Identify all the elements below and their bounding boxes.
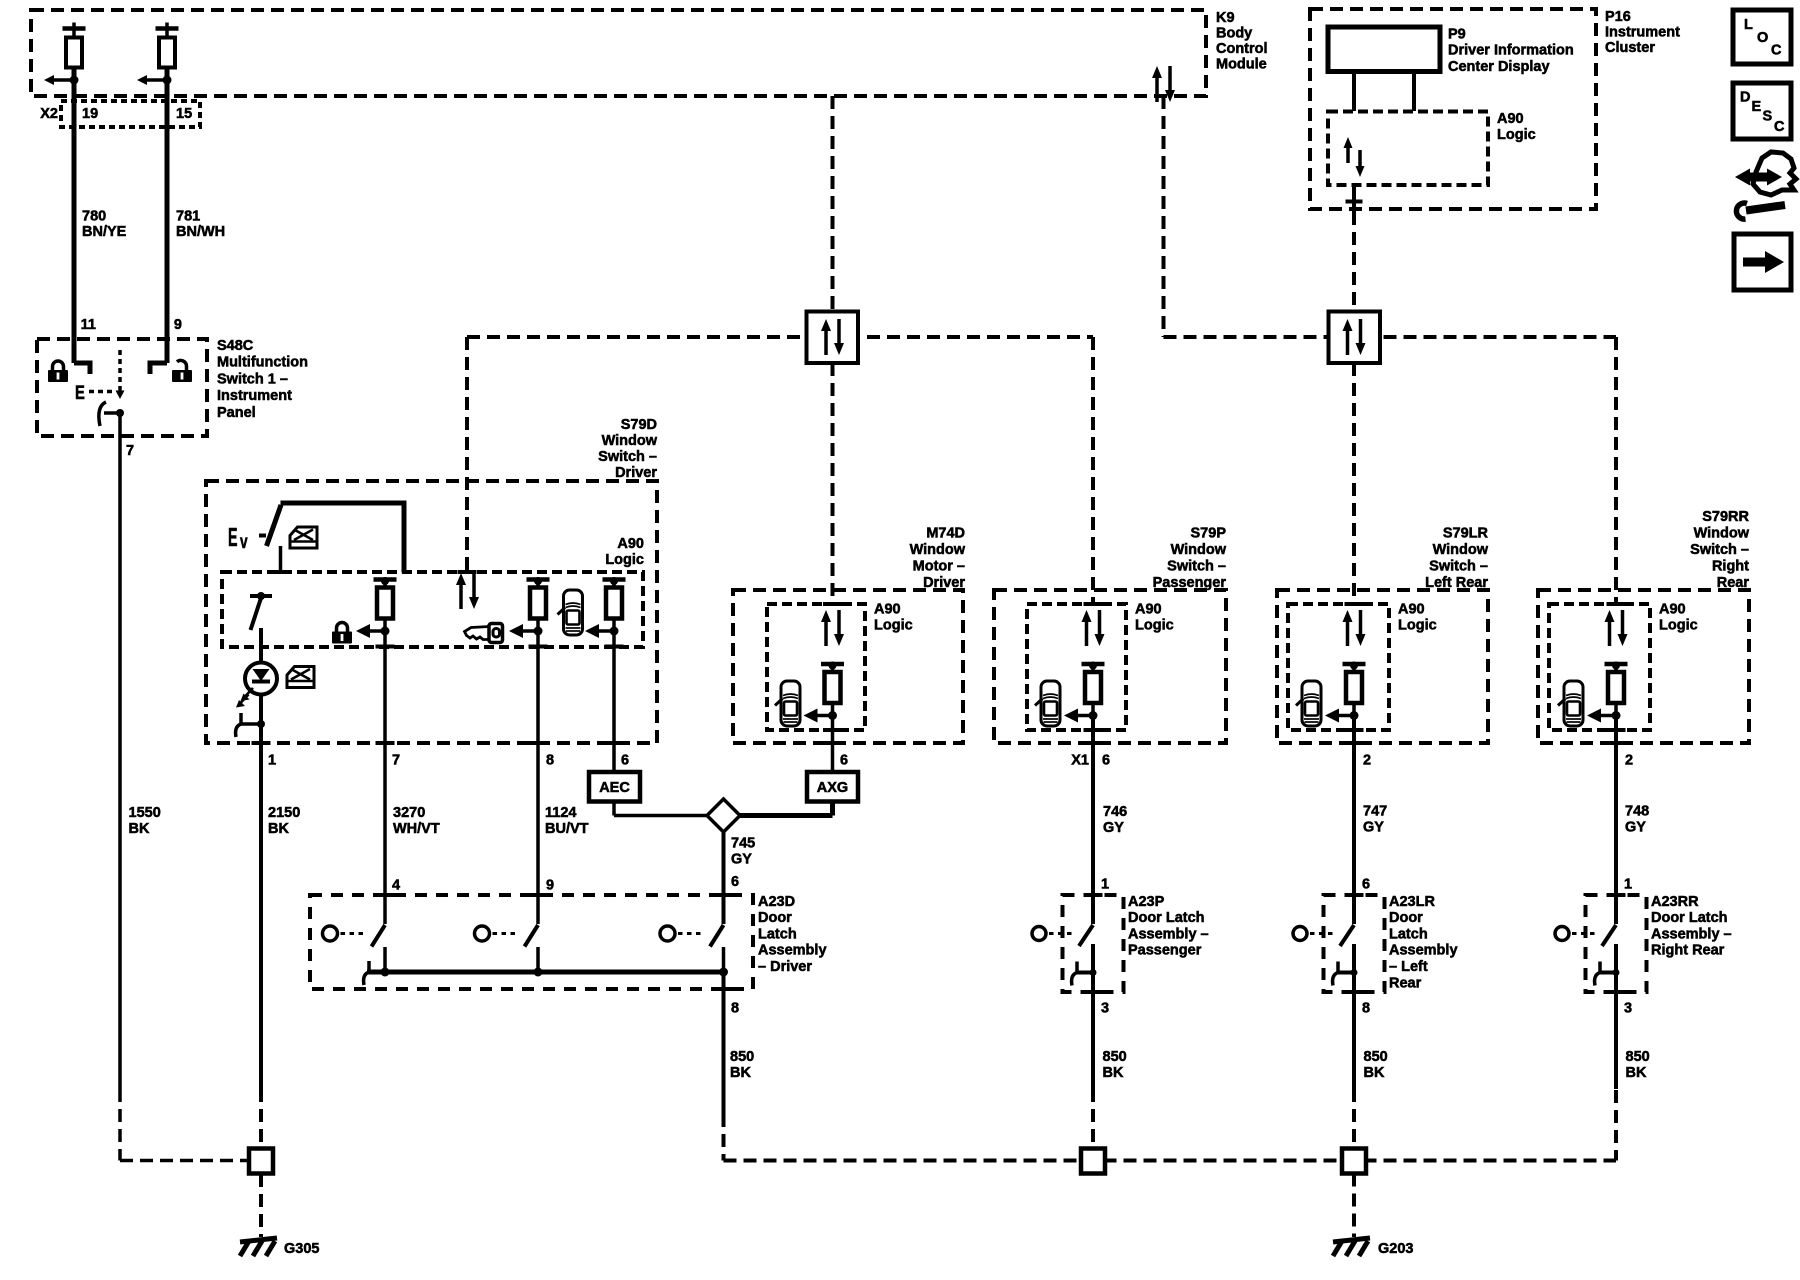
- svg-text:S79D: S79D: [621, 417, 657, 433]
- svg-text:4: 4: [392, 877, 400, 893]
- svg-text:8: 8: [1362, 1000, 1370, 1016]
- svg-text:A23RR: A23RR: [1651, 894, 1699, 910]
- svg-text:C: C: [1771, 42, 1782, 58]
- svg-text:X1: X1: [1071, 752, 1089, 768]
- svg-text:781: 781: [176, 208, 200, 224]
- svg-text:6: 6: [1102, 752, 1110, 768]
- svg-text:745: 745: [731, 835, 755, 851]
- svg-text:3: 3: [1624, 1000, 1632, 1016]
- svg-text:2150: 2150: [268, 805, 300, 821]
- svg-text:Door: Door: [1389, 910, 1423, 926]
- svg-text:– Left: – Left: [1389, 959, 1428, 975]
- svg-text:BK: BK: [129, 821, 150, 837]
- svg-text:Module: Module: [1216, 56, 1267, 72]
- svg-text:X2: X2: [40, 106, 58, 122]
- svg-text:Instrument: Instrument: [1605, 24, 1680, 40]
- svg-text:Switch –: Switch –: [1429, 558, 1488, 574]
- svg-text:2: 2: [1625, 752, 1633, 768]
- svg-text:P9: P9: [1448, 26, 1466, 42]
- svg-text:Multifunction: Multifunction: [217, 355, 308, 371]
- svg-text:7: 7: [392, 752, 400, 768]
- svg-text:A90: A90: [1659, 601, 1686, 617]
- svg-text:2: 2: [1363, 752, 1371, 768]
- svg-text:Window: Window: [1171, 542, 1227, 558]
- svg-text:WH/VT: WH/VT: [393, 821, 440, 837]
- svg-text:Driver: Driver: [923, 575, 965, 591]
- svg-text:Right: Right: [1712, 558, 1749, 574]
- svg-text:Logic: Logic: [1497, 127, 1536, 143]
- svg-text:Rear: Rear: [1717, 575, 1750, 591]
- svg-text:AEC: AEC: [599, 780, 630, 796]
- svg-text:Window: Window: [1694, 525, 1750, 541]
- svg-text:850: 850: [1626, 1049, 1650, 1065]
- svg-text:Switch 1 –: Switch 1 –: [217, 371, 288, 387]
- svg-text:3270: 3270: [393, 805, 425, 821]
- svg-text:GY: GY: [731, 851, 752, 867]
- svg-text:Logic: Logic: [605, 552, 644, 568]
- svg-text:6: 6: [621, 752, 629, 768]
- svg-text:Body: Body: [1216, 25, 1252, 41]
- svg-text:746: 746: [1103, 804, 1127, 820]
- svg-text:GY: GY: [1363, 819, 1384, 835]
- svg-text:E: E: [75, 382, 85, 403]
- svg-text:Latch: Latch: [1389, 926, 1428, 942]
- svg-text:S48C: S48C: [217, 338, 254, 354]
- svg-text:Right Rear: Right Rear: [1651, 943, 1725, 959]
- svg-text:Latch: Latch: [758, 926, 797, 942]
- svg-text:747: 747: [1363, 803, 1387, 819]
- svg-text:Logic: Logic: [1135, 617, 1174, 633]
- svg-text:P16: P16: [1605, 9, 1631, 25]
- svg-text:L: L: [1744, 17, 1753, 33]
- svg-text:Door Latch: Door Latch: [1651, 910, 1728, 926]
- svg-text:Driver: Driver: [615, 465, 657, 481]
- svg-text:Driver Information: Driver Information: [1448, 43, 1574, 59]
- svg-text:Logic: Logic: [1398, 617, 1437, 633]
- svg-text:S79P: S79P: [1191, 525, 1227, 541]
- svg-text:Switch –: Switch –: [1690, 542, 1749, 558]
- svg-text:6: 6: [731, 874, 739, 890]
- svg-text:O: O: [1757, 30, 1768, 46]
- svg-text:A23LR: A23LR: [1389, 894, 1435, 910]
- svg-text:Cluster: Cluster: [1605, 40, 1655, 56]
- svg-text:GY: GY: [1103, 820, 1124, 836]
- svg-text:780: 780: [82, 208, 106, 224]
- svg-text:M74D: M74D: [926, 525, 965, 541]
- svg-text:Door Latch: Door Latch: [1128, 910, 1205, 926]
- svg-text:S79LR: S79LR: [1443, 525, 1489, 541]
- svg-text:9: 9: [174, 317, 182, 333]
- svg-text:A90: A90: [617, 536, 644, 552]
- svg-text:Left Rear: Left Rear: [1425, 575, 1488, 591]
- svg-text:A90: A90: [1497, 111, 1524, 127]
- svg-text:1: 1: [1101, 876, 1109, 892]
- svg-text:BK: BK: [1626, 1065, 1647, 1081]
- svg-text:Motor –: Motor –: [913, 558, 965, 574]
- svg-text:C: C: [1774, 119, 1785, 135]
- svg-text:v: v: [240, 531, 248, 553]
- svg-text:Window: Window: [602, 433, 658, 449]
- svg-text:Logic: Logic: [874, 617, 913, 633]
- svg-text:1: 1: [268, 752, 276, 768]
- svg-text:Rear: Rear: [1389, 975, 1422, 991]
- svg-text:9: 9: [546, 877, 554, 893]
- svg-text:D: D: [1740, 89, 1750, 105]
- svg-text:8: 8: [546, 752, 554, 768]
- svg-text:A90: A90: [1135, 601, 1162, 617]
- svg-text:BK: BK: [1364, 1065, 1385, 1081]
- svg-text:11: 11: [81, 317, 96, 333]
- svg-text:E: E: [228, 524, 238, 553]
- svg-text:BK: BK: [730, 1065, 751, 1081]
- svg-text:AXG: AXG: [817, 780, 848, 796]
- svg-text:Passenger: Passenger: [1153, 575, 1227, 591]
- svg-text:S: S: [1763, 108, 1773, 124]
- svg-text:S79RR: S79RR: [1702, 509, 1749, 525]
- svg-text:A90: A90: [874, 601, 901, 617]
- svg-text:3: 3: [1101, 1000, 1109, 1016]
- svg-text:7: 7: [126, 443, 134, 459]
- svg-text:850: 850: [1103, 1049, 1127, 1065]
- svg-text:6: 6: [840, 752, 848, 768]
- svg-text:Switch –: Switch –: [1167, 558, 1226, 574]
- svg-text:Panel: Panel: [217, 405, 256, 421]
- svg-text:Assembly: Assembly: [1389, 943, 1458, 959]
- svg-text:850: 850: [730, 1049, 754, 1065]
- svg-text:15: 15: [176, 106, 192, 122]
- svg-text:– Driver: – Driver: [758, 959, 812, 975]
- svg-text:Window: Window: [910, 542, 966, 558]
- svg-text:19: 19: [82, 106, 98, 122]
- svg-text:A23P: A23P: [1128, 894, 1165, 910]
- svg-text:6: 6: [1362, 876, 1370, 892]
- svg-text:1124: 1124: [545, 805, 576, 821]
- svg-text:Assembly –: Assembly –: [1128, 926, 1209, 942]
- svg-text:Assembly –: Assembly –: [1651, 926, 1732, 942]
- svg-text:E: E: [1752, 99, 1762, 115]
- svg-text:BU/VT: BU/VT: [545, 821, 589, 837]
- svg-text:Center Display: Center Display: [1448, 59, 1550, 75]
- svg-text:GY: GY: [1625, 819, 1646, 835]
- svg-text:BK: BK: [1103, 1065, 1124, 1081]
- svg-text:850: 850: [1364, 1049, 1388, 1065]
- svg-text:1550: 1550: [129, 805, 161, 821]
- svg-text:BK: BK: [268, 821, 289, 837]
- svg-text:Window: Window: [1433, 542, 1489, 558]
- svg-text:G203: G203: [1378, 1241, 1413, 1257]
- svg-text:748: 748: [1625, 803, 1649, 819]
- svg-text:Switch –: Switch –: [598, 449, 657, 465]
- svg-text:Instrument: Instrument: [217, 388, 292, 404]
- svg-text:Assembly: Assembly: [758, 943, 827, 959]
- svg-text:A90: A90: [1398, 601, 1425, 617]
- svg-text:BN/YE: BN/YE: [82, 224, 127, 240]
- svg-text:A23D: A23D: [758, 894, 795, 910]
- svg-text:Door: Door: [758, 910, 792, 926]
- svg-text:G305: G305: [284, 1241, 319, 1257]
- svg-text:8: 8: [731, 1000, 739, 1016]
- svg-text:Logic: Logic: [1659, 617, 1698, 633]
- svg-text:BN/WH: BN/WH: [176, 224, 225, 240]
- svg-text:Passenger: Passenger: [1128, 943, 1202, 959]
- svg-text:Control: Control: [1216, 41, 1268, 57]
- svg-text:1: 1: [1624, 876, 1632, 892]
- svg-text:K9: K9: [1216, 10, 1235, 26]
